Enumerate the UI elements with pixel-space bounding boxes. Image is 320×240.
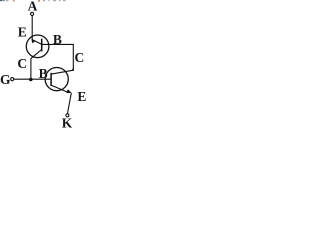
svg-text:E: E [18, 25, 27, 40]
svg-text:C: C [75, 50, 85, 65]
svg-text:A: A [28, 0, 38, 13]
svg-text:G: G [0, 72, 11, 87]
svg-text:B: B [53, 32, 62, 47]
svg-text:E: E [77, 89, 86, 104]
svg-text:K: K [62, 116, 73, 131]
svg-text:C: C [17, 56, 27, 71]
svg-text:B: B [39, 66, 48, 81]
